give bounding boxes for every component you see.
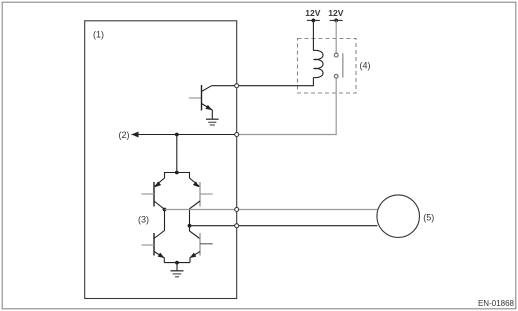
12V supply terminal 1 [305,8,320,22]
relay switch movable bar [342,53,344,77]
junction bottom rail [175,261,179,265]
ground below Q1 [206,119,219,125]
transistor Q1 base stub [189,97,202,99]
svg-text:(5): (5) [423,213,434,223]
transistor Q4 lower-left [142,210,165,263]
transistor Q5 lower-right [190,226,213,263]
12V supply terminal 2 [328,8,343,22]
svg-text:EN-01868: EN-01868 [478,299,515,308]
transistor Q2 upper-left [142,173,177,210]
ECU box (1) [85,21,237,299]
relay box (4) [298,39,371,94]
terminal pin row4 [235,224,239,228]
svg-text:(4): (4) [360,60,371,70]
ground below bridge [171,271,184,277]
svg-text:12V: 12V [328,8,343,18]
wire 12V-2 to switch contact [335,20,337,53]
wire Q1 collector to terminal [212,85,237,87]
svg-text:(2): (2) [119,130,130,140]
wire (2) line [132,134,237,136]
svg-text:(1): (1) [93,30,104,40]
node A junction [163,208,167,212]
transistor Q3 upper-right [177,173,213,226]
node B junction [188,224,192,228]
junction on (2) line [175,133,179,137]
motor M (5) [377,195,434,238]
wire to ground [176,263,178,271]
wire motor lower [190,225,378,227]
svg-text:(3): (3) [138,215,149,225]
wire junction down to bridge [176,135,178,173]
svg-text:12V: 12V [305,8,320,18]
terminal pin row2 [235,133,239,137]
relay coil [313,50,323,77]
wire Q1 emitter to ground [211,110,213,119]
wire coil bottom to terminal [237,78,314,86]
wire motor upper (gray) [165,209,378,211]
arrow (2) [119,130,139,140]
transistor Q1 [202,85,213,111]
wire 12V-1 to coil [312,20,314,50]
junction top of bridge [175,171,179,175]
terminal pin row3 [235,208,239,212]
wire switch to terminal row 2 [237,78,337,134]
relay switch contacts [334,53,338,78]
wire bridge bottom rail [164,262,190,264]
terminal pin row1 [235,84,239,88]
